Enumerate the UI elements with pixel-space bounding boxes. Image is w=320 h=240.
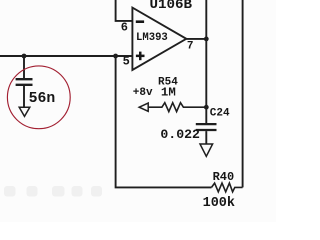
ground for C24 [200,144,213,156]
wire: net into pin 5 (top horizontal) [0,55,132,57]
svg-text:5: 5 [123,55,130,69]
resistor R54 [148,103,205,112]
svg-text:1M: 1M [161,85,176,99]
junction node at output [204,37,209,42]
junction node at pin 5 / feedback branch [113,54,118,59]
red annotation circle [7,66,70,129]
ground for 56n [19,107,30,116]
wire: output net vertical from top edge down to C24 [205,0,207,123]
wire: feedback branch down and along bottom to R40 [116,56,212,187]
svg-text:+8v: +8v [133,87,153,99]
svg-text:7: 7 [187,40,194,52]
svg-text:56n: 56n [29,91,56,107]
faint erased dashes bottom left [4,186,102,197]
svg-text:0.022: 0.022 [160,127,200,142]
svg-text:C24: C24 [210,107,230,119]
svg-text:6: 6 [121,20,128,34]
junction node at 56n capacitor [22,54,27,59]
svg-text:100k: 100k [203,196,235,211]
svg-text:LM393: LM393 [136,32,168,44]
svg-text:U106B: U106B [150,0,193,13]
resistor R40 [212,183,243,192]
wire: output of op-amp [186,38,206,40]
net arrow +8v [139,103,148,111]
capacitor 56n [16,56,33,107]
capacitor C24 [196,124,217,144]
svg-text:R40: R40 [213,170,235,184]
junction node R54 / C24 [204,105,209,110]
op-amp inverting input marker (minus) [136,20,144,23]
op-amp U106B triangle [132,8,186,70]
wire: right vertical net from R40 to top edge [242,0,244,187]
wire: pin 6 feed from top edge [116,0,133,21]
op-amp non-inverting input marker (plus) [136,52,145,61]
